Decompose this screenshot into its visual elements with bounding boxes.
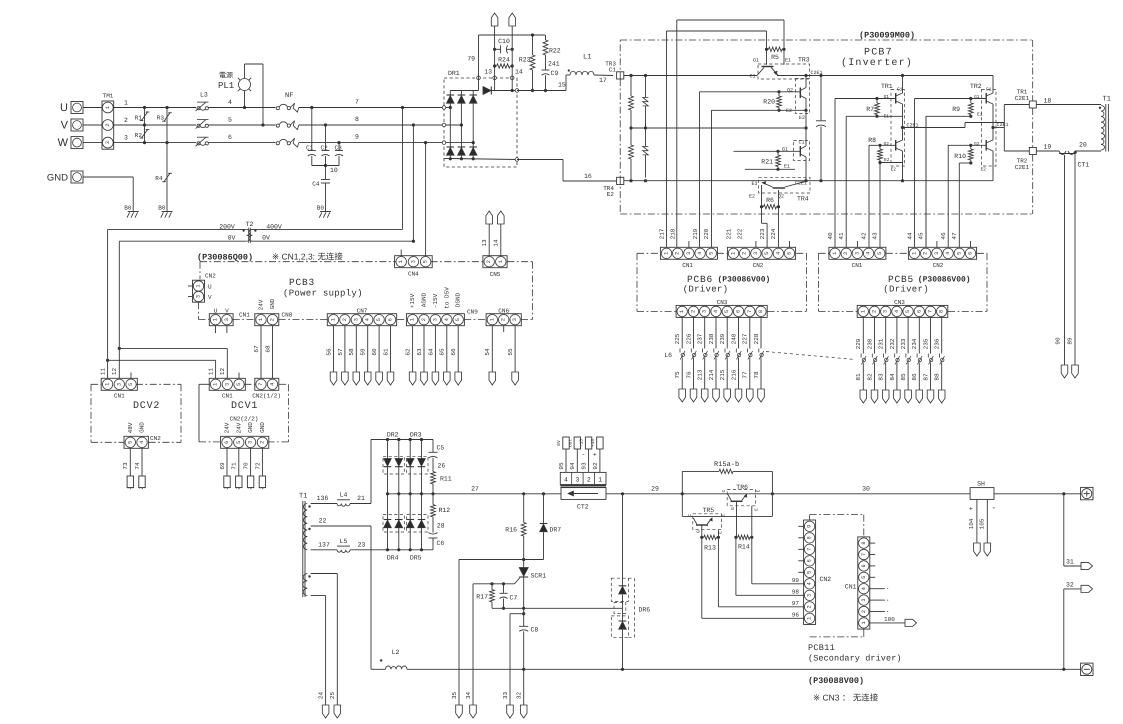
wires 13 14 (484, 13, 523, 92)
svg-text:223: 223 (759, 228, 766, 239)
svg-text:214: 214 (708, 369, 715, 380)
svg-text:225: 225 (674, 333, 681, 344)
svg-text:5: 5 (236, 441, 242, 444)
svg-text:24: 24 (318, 692, 325, 700)
svg-text:230: 230 (866, 338, 873, 349)
label wire 238 (708, 333, 715, 344)
wire 74 (134, 449, 142, 477)
svg-text:97: 97 (792, 600, 800, 607)
wire 94 (568, 437, 580, 472)
svg-text:65: 65 (439, 348, 446, 356)
svg-text:6: 6 (787, 252, 793, 255)
wire 47 (958, 163, 960, 247)
svg-text:6: 6 (224, 441, 230, 444)
svg-text:TR6: TR6 (736, 484, 748, 491)
svg-text:R24: R24 (498, 57, 510, 64)
label PCB5 (888, 274, 914, 285)
svg-text:C: C (721, 489, 727, 492)
circuit breaker L3 (196, 92, 209, 147)
label wire 221 (725, 228, 732, 239)
connector PCB3 CN6 (486, 308, 521, 333)
svg-text:239: 239 (719, 333, 726, 344)
svg-text:5: 5 (455, 318, 461, 321)
svg-text:70: 70 (243, 462, 250, 470)
svg-text:R6: R6 (766, 197, 774, 204)
svg-text:10: 10 (330, 167, 338, 174)
wire 60 (371, 326, 379, 372)
svg-text:R21: R21 (761, 159, 773, 166)
svg-text:12: 12 (219, 368, 226, 376)
label PCB6 (687, 274, 713, 285)
resistor R16 (505, 494, 526, 560)
svg-text:18: 18 (1044, 98, 1052, 105)
DR1 input nodes (442, 106, 446, 145)
svg-text:61: 61 (382, 348, 389, 356)
label wire 231 (878, 338, 885, 349)
svg-text:E: E (721, 514, 726, 517)
svg-text:R1: R1 (135, 115, 143, 122)
connector PCB3 CN2 (188, 273, 216, 303)
wire bottom bus (624, 179, 993, 182)
svg-text:42: 42 (861, 232, 868, 240)
svg-text:2: 2 (861, 610, 867, 613)
wire 92 (591, 437, 603, 472)
svg-text:62: 62 (405, 348, 412, 356)
svg-text:229: 229 (855, 338, 862, 349)
wire top bus right (777, 74, 993, 77)
wire 30 left (682, 486, 970, 494)
svg-text:237: 237 (697, 333, 704, 344)
svg-text:G: G (730, 507, 736, 510)
wire rectifier bottom bus (372, 548, 434, 551)
label wire 47 (951, 232, 958, 240)
svg-text:26: 26 (438, 463, 446, 470)
svg-text:89: 89 (1067, 337, 1074, 345)
label wire 219 (692, 228, 699, 239)
svg-text:-: - (991, 504, 996, 513)
svg-text:4: 4 (945, 252, 951, 255)
lug 72 (259, 476, 265, 489)
wire 32 tap (1064, 582, 1081, 670)
svg-text:7: 7 (807, 548, 813, 551)
svg-text:CN1: CN1 (845, 584, 857, 591)
wire 24 (311, 596, 326, 706)
svg-text:2: 2 (690, 310, 696, 313)
capacitors C1 C2 C3 (306, 106, 343, 174)
svg-text:99: 99 (792, 577, 800, 584)
PCB5 board outline (819, 253, 988, 311)
svg-text:3: 3 (854, 252, 860, 255)
svg-text:40: 40 (827, 232, 834, 240)
svg-text:28: 28 (437, 523, 445, 530)
svg-text:5: 5 (724, 310, 730, 313)
svg-text:60: 60 (371, 348, 378, 356)
label PCB11 (808, 643, 835, 653)
connector DCV2 CN2 (124, 422, 161, 449)
resistor R4 (155, 143, 172, 212)
wire 31 (1064, 494, 1081, 566)
svg-text:3: 3 (883, 310, 889, 313)
bridge rectifier DR1 outline (444, 70, 517, 167)
svg-text:4: 4 (139, 441, 145, 444)
lug 64 (432, 372, 439, 385)
transistor Q2 and resistor R20 (700, 76, 810, 129)
svg-text:4: 4 (697, 252, 703, 255)
svg-text:C4: C4 (312, 181, 320, 188)
lug 25 (329, 692, 340, 718)
svg-text:215: 215 (719, 369, 726, 380)
svg-text:74: 74 (134, 462, 141, 470)
svg-text:5: 5 (128, 383, 134, 386)
svg-text:59: 59 (360, 348, 367, 356)
svg-text:2: 2 (872, 310, 878, 313)
svg-text:PCB6: PCB6 (687, 274, 713, 285)
svg-text:44: 44 (906, 232, 913, 240)
capacitor C4 (312, 166, 330, 212)
resistor R2 (135, 125, 150, 144)
resistor upper left (629, 76, 634, 129)
svg-text:TR3: TR3 (798, 57, 810, 64)
svg-text:E1: E1 (884, 115, 890, 120)
svg-text:1: 1 (861, 621, 867, 624)
svg-text:R14: R14 (738, 544, 750, 551)
lug 55 (512, 372, 519, 385)
DCV1 board outline (199, 384, 289, 442)
svg-text:0V: 0V (262, 235, 270, 242)
lug 59 (364, 372, 371, 385)
svg-text:85: 85 (900, 373, 907, 381)
svg-text:(P30088V00): (P30088V00) (808, 676, 864, 686)
svg-text:3: 3 (353, 318, 359, 321)
svg-text:19: 19 (1044, 144, 1052, 151)
svg-text:3: 3 (861, 599, 867, 602)
wire TR6 gate (735, 506, 737, 538)
svg-text:CT1: CT1 (1078, 162, 1090, 169)
wire 400V (252, 106, 404, 229)
connector PCB5 CN2 (908, 241, 976, 269)
lug 100 (905, 619, 917, 626)
svg-text:4: 4 (365, 318, 371, 321)
svg-text:SH: SH (977, 481, 985, 488)
svg-text:83: 83 (878, 373, 885, 381)
svg-text:241: 241 (548, 61, 560, 68)
svg-text:1: 1 (398, 260, 404, 263)
lug 56 (330, 372, 337, 385)
inductor L5 wire 23 (311, 538, 372, 553)
label wire 82 (866, 373, 873, 381)
svg-text:C6: C6 (437, 540, 445, 547)
svg-text:9: 9 (807, 525, 813, 528)
svg-text:+15V: +15V (409, 293, 416, 308)
wire 98 (736, 537, 804, 595)
svg-text:92: 92 (592, 462, 599, 470)
transistor TR1 lower and resistor R8 (868, 123, 918, 181)
svg-text:DR4: DR4 (387, 555, 399, 562)
connector PCB11 CN2 (798, 520, 831, 625)
wire 65 (439, 326, 447, 372)
transformer T1 primary (1099, 96, 1111, 152)
svg-text:GND: GND (47, 173, 68, 184)
label P30099M00 (859, 31, 915, 41)
svg-text:233: 233 (900, 338, 907, 349)
wire 224 (778, 207, 780, 248)
svg-text:PCB5: PCB5 (888, 274, 914, 285)
svg-text:15: 15 (558, 82, 566, 89)
svg-text:1: 1 (410, 318, 416, 321)
svg-text:2: 2 (923, 252, 929, 255)
svg-text:231: 231 (878, 338, 885, 349)
lug 60 (376, 372, 383, 385)
svg-text:1: 1 (213, 383, 219, 386)
svg-text:R13: R13 (704, 545, 716, 552)
ferrite beads PCB5 with lugs (860, 317, 945, 403)
terminal TR4 E2 (603, 177, 624, 198)
svg-text:216: 216 (730, 369, 737, 380)
svg-text:25: 25 (329, 692, 336, 700)
label wire 214 (708, 369, 715, 380)
svg-text:2: 2 (342, 318, 348, 321)
thyristor SCR1 (515, 560, 547, 609)
svg-text:17: 17 (599, 77, 607, 84)
svg-text:64: 64 (427, 348, 434, 356)
shunt SH (970, 481, 994, 500)
PCB6 board outline (637, 253, 807, 311)
label wire 220 (703, 228, 710, 239)
wire 104 (968, 499, 977, 543)
svg-text:54: 54 (484, 348, 491, 356)
svg-text:93: 93 (581, 462, 588, 470)
lug 24 (318, 692, 329, 718)
svg-text:7: 7 (747, 310, 753, 313)
wire 223 (762, 207, 768, 248)
wire PL1 to V phase (245, 64, 265, 127)
svg-text:R11: R11 (440, 476, 452, 483)
wire 56 (325, 326, 333, 372)
svg-text:100: 100 (884, 616, 895, 623)
transformer T1 secondary (299, 493, 311, 598)
label wire 229 (855, 338, 862, 349)
svg-text:63: 63 (416, 348, 423, 356)
label wire 227 (742, 333, 749, 344)
svg-text:DR6: DR6 (639, 607, 651, 614)
svg-text:8: 8 (758, 310, 764, 313)
terminal output minus (1081, 663, 1093, 675)
svg-text:2: 2 (742, 252, 748, 255)
label P30088V00 (808, 676, 864, 686)
lug 65 (444, 372, 451, 385)
svg-text:E3: E3 (751, 181, 757, 187)
svg-text:B0: B0 (158, 205, 166, 212)
label wire 41 (838, 232, 845, 240)
wire 41 (845, 116, 847, 247)
svg-text:105: 105 (979, 518, 986, 529)
wire mid bus (629, 126, 807, 129)
svg-text:Q2: Q2 (787, 88, 793, 94)
svg-text:234: 234 (911, 338, 918, 349)
transistor TR4 Q1 and resistor R21 (734, 128, 810, 181)
label wire 42 (861, 232, 868, 240)
wire 25 (311, 574, 338, 706)
lug 34 (470, 705, 477, 718)
svg-text:136: 136 (317, 495, 329, 502)
wire 68 (264, 326, 272, 379)
lug 90 (1054, 337, 1068, 378)
transistor TR1 outline (881, 83, 905, 166)
svg-text:E1: E1 (977, 113, 983, 118)
svg-text:227: 227 (742, 333, 749, 344)
svg-text:CN6: CN6 (498, 308, 509, 315)
svg-text:5: 5 (127, 441, 133, 444)
svg-text:41: 41 (838, 232, 845, 240)
connector PCB3 CN8 (255, 298, 293, 325)
svg-text:E2: E2 (607, 191, 615, 198)
svg-text:1: 1 (731, 252, 737, 255)
connector PCB11 CN1 (845, 537, 889, 629)
lug 89 (1067, 337, 1079, 378)
svg-text:22: 22 (319, 518, 327, 525)
svg-text:95: 95 (558, 462, 565, 470)
varistor upper (643, 75, 649, 129)
svg-text:CT2: CT2 (577, 504, 589, 511)
lug 61 (387, 372, 394, 385)
svg-text:238: 238 (708, 333, 715, 344)
svg-text:2: 2 (105, 123, 111, 126)
svg-text:B0: B0 (124, 205, 132, 212)
terminal output plus (1081, 487, 1093, 499)
svg-text:1: 1 (124, 100, 128, 107)
lug 74 (139, 476, 145, 489)
svg-text:14: 14 (493, 239, 500, 247)
lug 71 (236, 476, 242, 489)
svg-text:V: V (61, 120, 69, 132)
svg-text:1: 1 (498, 260, 504, 263)
svg-text:32: 32 (1066, 582, 1074, 589)
svg-text:21: 21 (357, 495, 365, 502)
svg-text:56: 56 (325, 348, 332, 356)
svg-text:TM1: TM1 (103, 93, 114, 100)
svg-text:L2: L2 (392, 649, 400, 656)
dashed bead link (766, 352, 855, 360)
PCB7 board outline (620, 40, 1032, 214)
svg-text:R23: R23 (519, 57, 531, 64)
wire bottom output bus (407, 668, 1081, 671)
resistor R14 (734, 535, 753, 550)
wire 66 (450, 326, 458, 372)
svg-text:GND: GND (269, 298, 276, 309)
connector PCB6 CN1 (660, 241, 717, 269)
svg-text:222: 222 (737, 228, 744, 239)
svg-text:E: E (719, 531, 724, 534)
wire 62 (405, 326, 413, 372)
svg-text:11: 11 (208, 368, 215, 376)
svg-text:3: 3 (248, 441, 254, 444)
label wire 217 (658, 228, 665, 239)
svg-text:4: 4 (861, 587, 867, 590)
label wire 76 (685, 371, 692, 379)
wire 54 (484, 326, 492, 372)
svg-text:82: 82 (866, 373, 873, 381)
svg-text:79: 79 (467, 56, 475, 63)
svg-text:E: E (755, 508, 760, 511)
svg-text:8: 8 (807, 536, 813, 539)
svg-text:8: 8 (939, 310, 945, 313)
PCB3 board outline (199, 262, 533, 320)
svg-text:87: 87 (922, 373, 929, 381)
wire 105 (979, 499, 997, 543)
svg-text:73: 73 (122, 462, 129, 470)
connector PCB3 CN1 (209, 308, 250, 334)
svg-text:71: 71 (231, 462, 238, 470)
svg-text:1: 1 (331, 318, 337, 321)
svg-text:C1: C1 (749, 74, 755, 80)
svg-text:T1: T1 (299, 493, 307, 501)
svg-text:32: 32 (516, 692, 523, 700)
svg-text:(P30086Q00): (P30086Q00) (197, 253, 253, 263)
label wire 43 (872, 232, 879, 240)
svg-text:27: 27 (471, 486, 479, 493)
label wire 233 (900, 338, 907, 349)
svg-text:3: 3 (934, 252, 940, 255)
PCB11 board outline (810, 515, 864, 637)
svg-text:U: U (60, 102, 68, 114)
svg-text:C2E1: C2E1 (1015, 164, 1030, 171)
svg-text:86: 86 (911, 373, 918, 381)
label wire 86 (911, 373, 918, 381)
ground B0 under C4 (317, 205, 331, 218)
svg-text:7: 7 (355, 99, 359, 106)
wire 16 (517, 160, 617, 182)
wire 35 node (459, 558, 544, 561)
label wire 239 (719, 333, 726, 344)
svg-text:35: 35 (451, 692, 458, 700)
wire DCV1 CN1 to CN2 (199, 384, 210, 442)
svg-text:5: 5 (228, 117, 232, 124)
svg-text:4: 4 (807, 582, 813, 585)
wire 218 loop (677, 20, 784, 247)
wire 73 (122, 449, 130, 477)
svg-text:R15a-b: R15a-b (714, 460, 739, 469)
wire C2E1 interconnect (903, 123, 1005, 128)
label wire 223 (759, 228, 766, 239)
svg-text:E: E (756, 489, 761, 492)
svg-text:TR4: TR4 (797, 196, 809, 203)
svg-text:G: G (696, 530, 702, 533)
svg-text:(P30086V00): (P30086V00) (718, 276, 771, 285)
svg-text:8: 8 (861, 542, 867, 545)
svg-text:GND: GND (247, 422, 254, 433)
svg-text:218: 218 (670, 228, 677, 239)
diode pair DR6 (611, 494, 650, 670)
svg-text:7: 7 (861, 553, 867, 556)
label PCB5 Driver (883, 285, 929, 295)
svg-text:5: 5 (905, 310, 911, 313)
svg-text:76: 76 (685, 371, 692, 379)
svg-text:C2E1: C2E1 (1015, 95, 1030, 102)
svg-text:CN2(1/2): CN2(1/2) (252, 393, 281, 400)
svg-text:DR1: DR1 (448, 70, 460, 77)
svg-text:33: 33 (502, 692, 509, 700)
current transformer CT2 (561, 488, 606, 511)
svg-text:90: 90 (1054, 337, 1061, 345)
svg-text:6: 6 (388, 318, 394, 321)
svg-text:CN3: CN3 (717, 299, 728, 306)
svg-text:(P30086V00): (P30086V00) (918, 276, 971, 285)
svg-text:1: 1 (807, 617, 813, 620)
svg-text:CN1: CN1 (852, 262, 863, 269)
svg-text:C2E1: C2E1 (811, 70, 823, 76)
wire 64 (427, 326, 435, 372)
connector PCB6 CN2 (727, 241, 795, 269)
